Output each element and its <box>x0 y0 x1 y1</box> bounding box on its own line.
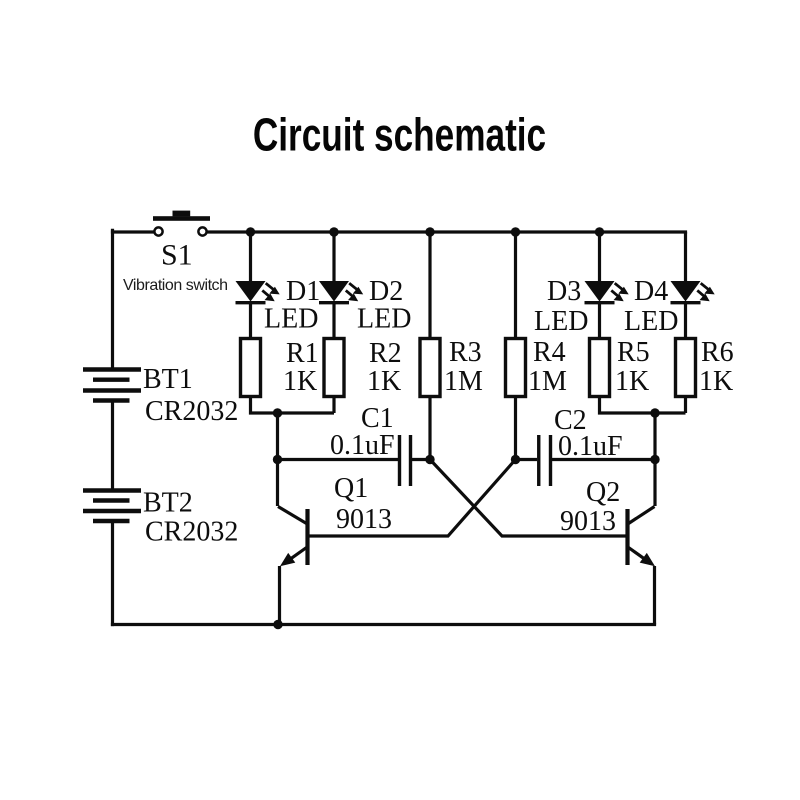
wire D1 cathode to R1 <box>249 303 252 339</box>
node top rail at R4 <box>511 227 520 236</box>
wire junction down to C1 tap <box>276 413 279 460</box>
svg-text:Circuit schematic: Circuit schematic <box>253 109 546 161</box>
node top rail at D2 <box>329 227 338 236</box>
node R1-R2 junction <box>273 408 282 417</box>
wire R3 bottom <box>428 397 431 460</box>
svg-text:1K: 1K <box>615 366 649 397</box>
svg-text:9013: 9013 <box>336 504 392 535</box>
wire C1 right plate to R3 node <box>412 458 430 461</box>
LED D3 <box>585 281 629 303</box>
wire top rail left (battery to S1) <box>113 230 154 233</box>
svg-text:LED: LED <box>534 306 588 337</box>
wire left rail upper (top rail down to BT1) <box>111 230 114 367</box>
svg-text:D2: D2 <box>369 276 403 307</box>
svg-text:D4: D4 <box>634 276 668 307</box>
wire D2 anode <box>332 232 335 281</box>
svg-text:R2: R2 <box>369 338 402 369</box>
svg-text:Q1: Q1 <box>334 473 368 504</box>
svg-text:CR2032: CR2032 <box>145 396 238 427</box>
wire D3 anode <box>598 232 601 281</box>
resistor R5 <box>590 339 610 397</box>
svg-text:0.1uF: 0.1uF <box>330 430 395 461</box>
capacitor C2 <box>539 435 551 486</box>
capacitor C1 <box>400 435 411 486</box>
wire R3 top <box>428 232 431 339</box>
node C1 left tap <box>273 455 282 464</box>
battery BT1 <box>83 370 141 401</box>
node top rail at D1 <box>246 227 255 236</box>
node R3-C1 junction <box>425 455 434 464</box>
wire R5 bottom <box>600 397 686 414</box>
svg-text:R6: R6 <box>701 337 734 368</box>
wire cross-couple to Q2 base <box>430 460 626 537</box>
svg-text:0.1uF: 0.1uF <box>558 431 623 462</box>
node top rail at D3 <box>595 227 604 236</box>
LED D2 <box>319 281 363 303</box>
wire left rail lower (BT2 to bottom rail) <box>111 521 114 625</box>
wire R4 node to C2 left plate <box>516 458 538 461</box>
transistor Q1 <box>278 460 308 625</box>
wire D4 cathode to R6 <box>684 303 687 339</box>
svg-text:R5: R5 <box>617 337 650 368</box>
resistor R1 <box>241 339 261 397</box>
wire bottom rail <box>113 623 655 626</box>
svg-text:1K: 1K <box>283 366 317 397</box>
resistor R4 <box>506 339 526 397</box>
svg-text:D3: D3 <box>547 276 581 307</box>
wire top rail (S1 to D4 corner) <box>208 230 686 233</box>
wire R4 top <box>514 232 517 339</box>
battery BT2 <box>83 491 141 522</box>
wire R6 bottom <box>684 397 687 414</box>
svg-text:LED: LED <box>357 304 411 335</box>
wire R4 bottom <box>514 397 517 460</box>
resistor R3 <box>420 339 440 397</box>
svg-text:S1: S1 <box>161 239 193 272</box>
wire R1 bottom <box>251 397 335 414</box>
wire D3 cathode to R5 <box>598 303 601 339</box>
wire cross-couple to Q1 base <box>309 460 516 537</box>
switch S1 <box>153 211 210 236</box>
wire C2 right plate to Q2 collector node <box>552 458 655 461</box>
LED D4 <box>671 281 715 303</box>
svg-text:1K: 1K <box>699 366 733 397</box>
svg-text:R4: R4 <box>533 337 566 368</box>
node Q1 emitter at bottom rail <box>273 620 282 629</box>
wire D4 anode (top rail corner down) <box>684 232 687 281</box>
svg-text:LED: LED <box>264 304 318 335</box>
svg-text:1M: 1M <box>528 366 567 397</box>
wire D2 cathode to R2 <box>332 303 335 339</box>
wire to C1 left plate <box>278 458 399 461</box>
svg-text:Q2: Q2 <box>586 477 620 508</box>
wire D1 anode <box>249 232 252 281</box>
node top rail at R3 <box>425 227 434 236</box>
svg-text:LED: LED <box>624 306 678 337</box>
node R4-C2 junction <box>511 455 520 464</box>
svg-text:Vibration switch: Vibration switch <box>123 277 228 294</box>
resistor R6 <box>676 339 696 397</box>
wire between BT1 and BT2 <box>111 401 114 489</box>
svg-text:BT2: BT2 <box>143 488 193 519</box>
wire R2 bottom <box>332 397 335 414</box>
svg-text:1M: 1M <box>444 366 483 397</box>
node R5-R6 junction <box>650 408 659 417</box>
svg-text:CR2032: CR2032 <box>145 517 238 548</box>
svg-text:1K: 1K <box>367 366 401 397</box>
svg-text:R1: R1 <box>286 338 319 369</box>
transistor Q2 <box>628 460 656 625</box>
LED D1 <box>236 281 280 303</box>
wire R5R6 junction down to C2 tap <box>653 413 656 460</box>
svg-text:BT1: BT1 <box>143 364 193 395</box>
node Q2 collector tap <box>650 455 659 464</box>
svg-text:9013: 9013 <box>560 506 616 537</box>
svg-text:D1: D1 <box>286 276 320 307</box>
resistor R2 <box>324 339 344 397</box>
svg-text:R3: R3 <box>449 337 482 368</box>
